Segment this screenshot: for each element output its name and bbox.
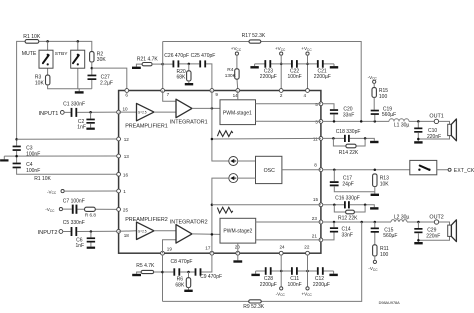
svg-text:PREAMPLIFIER1: PREAMPLIFIER1: [125, 123, 168, 129]
pin 19: [161, 251, 165, 255]
svg-text:INPUT2: INPUT2: [38, 230, 58, 236]
svg-text:6: 6: [125, 92, 128, 97]
wire I1 to OSC: [238, 160, 256, 162]
svg-text:100nF: 100nF: [288, 282, 302, 288]
ground C3/C4 midpoint: [3, 156, 5, 159]
svg-text:1nF: 1nF: [76, 243, 85, 249]
svg-text:10: 10: [123, 106, 129, 111]
IC U1 TDA7490 outline: [119, 91, 321, 254]
current source I2: [229, 174, 238, 183]
ground cap row bottom left: [251, 274, 259, 276]
ground C10: [414, 141, 422, 143]
pin 14: [236, 89, 240, 93]
svg-text:R1 10K: R1 10K: [23, 34, 41, 40]
svg-text:R13: R13: [380, 176, 389, 182]
node EXT_CK: [448, 168, 451, 171]
pin 12: [117, 137, 121, 141]
box PWM-stage2: [220, 218, 256, 243]
wire supply cap row top: [255, 64, 334, 66]
resistor R6 68K: [188, 272, 190, 278]
wire pin19 to integrator2: [163, 240, 177, 253]
resistor internal feedback1 zigzag: [217, 131, 232, 137]
svg-text:100nF: 100nF: [26, 168, 40, 174]
resistor R3: [46, 75, 50, 85]
svg-text:2.2µF: 2.2µF: [100, 80, 113, 86]
svg-text:C8 470pF: C8 470pF: [171, 259, 193, 265]
wire C29 bottom / speaker return: [418, 233, 449, 242]
svg-text:19: 19: [167, 246, 173, 251]
pin 1: [117, 189, 121, 193]
svg-text:R9 52.3K: R9 52.3K: [243, 304, 265, 310]
pin 9: [210, 89, 214, 93]
svg-text:15: 15: [313, 197, 319, 202]
svg-text:560µF: 560µF: [383, 233, 397, 239]
ground C17/R13: [371, 194, 379, 196]
node C14 top junction: [333, 221, 336, 224]
speaker LS2: [448, 225, 452, 236]
svg-text:3: 3: [315, 119, 318, 124]
node C29 junction: [417, 221, 420, 224]
wire to pin 6: [92, 68, 127, 90]
wire R9 feedback rail: [163, 222, 362, 301]
resistor R1: [25, 40, 39, 44]
wire INPUT1: [64, 111, 118, 113]
wire C14 to pin21: [323, 233, 334, 240]
svg-text:R5 4.7K: R5 4.7K: [136, 263, 155, 269]
inductor L1 30u: [389, 119, 409, 122]
capacitor C25: [199, 60, 201, 67]
wire pin15 row: [323, 205, 375, 207]
switch SW1 MUTE: [39, 50, 53, 68]
resistor R11 100: [373, 245, 377, 256]
capacitor C12: [317, 267, 319, 275]
svg-text:C17: C17: [343, 176, 352, 182]
svg-text:-VCC: -VCC: [368, 266, 378, 272]
wire pin15 internal: [212, 204, 321, 206]
pin 23: [319, 220, 323, 224]
wire I2 left vertical chain to pin17: [212, 178, 229, 253]
capacitor C1: [71, 108, 73, 117]
node C15 junction: [374, 221, 377, 224]
node pin19 feedback junction: [161, 271, 164, 274]
svg-text:1nF: 1nF: [77, 125, 86, 131]
capacitor C8: [173, 268, 175, 275]
node R9 junction: [360, 221, 363, 224]
pin 4: [306, 89, 310, 93]
op-amp INTEGRATOR2: [176, 225, 192, 244]
resistor R12 22K loop: [334, 205, 365, 212]
svg-text:INTEGRATOR1: INTEGRATOR1: [170, 120, 208, 126]
ground cap row left: [250, 66, 258, 68]
wire pin18 to preamp2: [119, 230, 137, 233]
ground cap row right: [330, 66, 338, 68]
wire pin7 vertical: [162, 42, 164, 91]
wire STBY stub: [77, 41, 79, 88]
capacitor C16 330pF: [344, 201, 346, 208]
svg-text:C7 100nF: C7 100nF: [63, 198, 85, 204]
ground mute network: [75, 91, 84, 93]
wire pin11 row: [323, 138, 375, 140]
capacitor C6: [90, 232, 92, 238]
svg-text:25: 25: [123, 207, 129, 212]
pin 25: [117, 208, 121, 212]
capacitor C10: [417, 121, 419, 127]
pin 15: [319, 203, 323, 207]
svg-text:G=2.5: G=2.5: [138, 111, 147, 115]
svg-text:+VCC: +VCC: [302, 291, 313, 297]
svg-text:MUTE: MUTE: [22, 51, 37, 57]
wire C20 to out1 line: [333, 114, 335, 121]
ground R5: [137, 272, 142, 274]
svg-text:23: 23: [312, 216, 318, 221]
svg-text:100nF: 100nF: [26, 152, 40, 158]
svg-text:PWM-stage1: PWM-stage1: [223, 110, 252, 116]
capacitor C5: [71, 227, 73, 236]
inductor L2 30u: [391, 220, 407, 222]
wire +Vcc to pin 4: [307, 55, 309, 90]
ground C2: [90, 124, 92, 128]
svg-text:-VCC: -VCC: [368, 75, 378, 81]
node -Vcc R11: [374, 256, 376, 260]
capacitor C3: [13, 146, 21, 148]
node C16 left junction: [333, 204, 336, 207]
svg-text:C5 330nF: C5 330nF: [63, 220, 85, 226]
node integrator2 out junction: [211, 233, 214, 236]
svg-text:R17 52.3K: R17 52.3K: [242, 33, 266, 39]
svg-text:G=2.5: G=2.5: [138, 229, 147, 233]
capacitor C29: [417, 222, 419, 228]
pin 10: [117, 110, 121, 114]
svg-text:C9 470pF: C9 470pF: [200, 274, 222, 280]
pin 20: [236, 251, 240, 255]
wire MUTE stub: [47, 41, 49, 75]
wire supply cap row bottom: [256, 271, 334, 274]
wire INPUT2: [63, 230, 119, 232]
ground R20: [188, 81, 190, 83]
svg-text:C26 470pF: C26 470pF: [164, 53, 189, 59]
pin 21: [319, 238, 323, 242]
capacitor C21: [317, 60, 319, 68]
wire pin10 to preamp1: [119, 111, 137, 113]
wire C26-C25 row: [163, 64, 212, 91]
svg-text:R6: R6: [177, 276, 184, 282]
resistor R21 4.7K: [142, 63, 152, 66]
wire R2/C27 node: [91, 62, 93, 75]
capacitor C23: [264, 60, 266, 68]
capacitor C18 330pF: [344, 135, 346, 142]
node internal junction pin11: [211, 138, 214, 141]
svg-text:+VCC: +VCC: [301, 46, 312, 52]
resistor R9 52.3K: [249, 300, 262, 303]
node R20 junction: [188, 63, 191, 66]
node R17 junction: [360, 120, 363, 123]
wire PWM2 out pin21: [256, 239, 321, 241]
wire C17/R13 common to ground: [334, 186, 375, 193]
svg-text:PREAMPLIFIER2: PREAMPLIFIER2: [125, 217, 168, 223]
wire PWM1 out pin5: [256, 103, 321, 105]
svg-text:100nF: 100nF: [288, 74, 302, 80]
wire integrator1 out to PWM1: [192, 107, 220, 109]
ground R6: [188, 288, 190, 290]
pin 6: [125, 89, 129, 93]
wire integrator2 out to PWM2: [192, 233, 220, 236]
pin 16: [117, 172, 121, 176]
svg-text:17: 17: [205, 246, 211, 251]
svg-text:9: 9: [215, 92, 218, 97]
wire C8-C9 row: [163, 255, 212, 272]
capacitor C11: [291, 267, 293, 275]
wire R1 top line: [17, 41, 92, 139]
wire pin 1: [64, 190, 118, 192]
capacitor C17 24pF: [333, 170, 335, 182]
resistor R5 4.7K: [141, 270, 154, 273]
pin 7: [161, 89, 165, 93]
svg-text:C25 470pF: C25 470pF: [191, 53, 216, 59]
capacitor C2: [90, 112, 92, 118]
ground pin11 RC: [370, 141, 378, 143]
wire PWM2 out pin23: [256, 221, 321, 223]
op-amp PREAMPLIFIER2: [137, 222, 155, 239]
wire PWM2 to pin20: [237, 243, 239, 253]
capacitor C15: [374, 222, 376, 245]
svg-text:R21 4.7K: R21 4.7K: [137, 56, 159, 62]
switch SW2 STBY: [71, 50, 85, 68]
svg-text:33nF: 33nF: [342, 232, 353, 238]
wire pin 13: [4, 155, 118, 157]
wire R17 rail: [163, 42, 362, 122]
speaker LS1: [448, 124, 452, 135]
node C16 right junction: [364, 204, 367, 207]
wire PWM1 out pin3: [256, 120, 321, 122]
wire pin24 to -Vcc: [280, 255, 282, 287]
svg-text:5: 5: [315, 102, 318, 107]
op-amp PREAMPLIFIER1: [137, 103, 155, 120]
node C18 right junction: [364, 137, 367, 140]
svg-text:1: 1: [123, 189, 126, 194]
svg-text:560µF: 560µF: [382, 112, 396, 118]
svg-text:R12 22K: R12 22K: [338, 216, 358, 222]
node pin22 junction: [306, 270, 309, 273]
svg-text:R 6.8: R 6.8: [85, 213, 96, 218]
svg-text:4: 4: [304, 93, 307, 98]
pin 8: [319, 168, 323, 172]
svg-text:18: 18: [124, 233, 130, 238]
svg-text:L1 30µ: L1 30µ: [394, 123, 410, 129]
wire pin9 vertical chain: [212, 91, 229, 162]
resistor R17 52.3K: [249, 40, 261, 43]
svg-text:-VCC: -VCC: [276, 291, 286, 297]
svg-text:C16 330pF: C16 330pF: [335, 195, 360, 201]
svg-text:L2 30µ: L2 30µ: [394, 214, 410, 220]
svg-text:INTEGRATOR2: INTEGRATOR2: [170, 219, 208, 225]
node internal junction pin15: [211, 204, 214, 207]
wire R5 to pin19 node: [154, 271, 163, 273]
node C18 left junction: [332, 137, 335, 140]
wire OUT1 line pin3: [323, 121, 450, 124]
pin 2: [279, 89, 283, 93]
svg-text:C3: C3: [26, 145, 33, 151]
node -Vcc pin24: [280, 287, 283, 290]
svg-text:2200µF: 2200µF: [260, 74, 277, 80]
wire OUT2 line pin23: [323, 222, 450, 225]
wire preamp2 out: [154, 230, 176, 232]
resistor internal feedback2 zigzag: [217, 207, 232, 213]
wire +Vcc to pin 2: [280, 55, 282, 90]
svg-text:30K: 30K: [97, 57, 107, 63]
pin 22: [306, 251, 310, 255]
node junction R1/STBY: [77, 40, 80, 43]
pin 13: [117, 154, 121, 158]
wire switch to EXT_CK: [437, 169, 448, 171]
wire preamp1 out: [154, 111, 176, 113]
svg-text:130K: 130K: [225, 73, 237, 78]
capacitor C22: [291, 60, 293, 68]
wire C7 row: [63, 208, 119, 210]
capacitor C28: [265, 267, 267, 275]
svg-text:C18 330pF: C18 330pF: [336, 129, 361, 135]
svg-text:24: 24: [280, 245, 286, 250]
node +Vcc pin22: [306, 287, 309, 290]
svg-text:+VCC: +VCC: [275, 46, 286, 52]
wire pin 12: [17, 138, 119, 140]
svg-text:100: 100: [379, 94, 388, 100]
node pin24 junction: [280, 270, 283, 273]
wire OSC to pin8: [282, 169, 321, 171]
svg-text:10K: 10K: [380, 182, 390, 188]
pin 3: [319, 120, 323, 124]
svg-text:2200µF: 2200µF: [260, 282, 277, 288]
pin 17: [210, 251, 214, 255]
wire pin19 vertical: [162, 255, 164, 301]
svg-text:220nF: 220nF: [426, 233, 440, 239]
node integrator1 out junction: [211, 107, 214, 110]
svg-text:C1 330nF: C1 330nF: [63, 101, 85, 107]
pin 5: [319, 102, 323, 106]
capacitor C27: [88, 75, 97, 77]
capacitor C26: [173, 60, 175, 67]
node C5/C6 junction: [90, 230, 93, 233]
svg-text:-VCC: -VCC: [45, 207, 55, 213]
switch SW3 external clock: [410, 160, 437, 174]
capacitor C14: [333, 222, 335, 227]
resistor R13 10K: [373, 174, 377, 187]
resistor R8 6.8: [85, 207, 96, 211]
svg-text:R14 22K: R14 22K: [339, 150, 359, 156]
ground pin15 RC: [370, 207, 378, 209]
svg-text:13: 13: [124, 154, 130, 159]
svg-text:OUT1: OUT1: [429, 114, 443, 120]
node R6 junction: [187, 271, 190, 274]
wire pin5 to C20: [323, 104, 334, 109]
node R13 top junction: [374, 168, 377, 171]
ground cap row bottom right: [329, 274, 337, 276]
svg-text:STBY: STBY: [55, 51, 69, 57]
wire pin14 to PWM1: [237, 91, 239, 100]
node pin12 junction: [15, 138, 18, 141]
svg-text:PWM-stage2: PWM-stage2: [223, 229, 252, 235]
svg-text:-VCC: -VCC: [47, 189, 57, 195]
node C10 junction: [417, 120, 420, 123]
capacitor C19: [373, 97, 376, 121]
wire pin11 internal: [212, 137, 321, 140]
wire I2 to OSC: [238, 177, 256, 179]
wire left rail to C3: [17, 139, 119, 174]
node C19 junction: [374, 120, 377, 123]
svg-text:EXT_CK: EXT_CK: [454, 168, 474, 174]
svg-text:INPUT1: INPUT1: [39, 111, 59, 117]
wire pin8 row: [323, 169, 410, 171]
wire C10 bottom / speaker return: [418, 133, 449, 142]
pin 24: [279, 251, 283, 255]
svg-text:68K: 68K: [177, 75, 187, 81]
svg-text:21: 21: [312, 233, 318, 238]
capacitor C4: [13, 163, 21, 165]
svg-text:100: 100: [380, 252, 389, 258]
capacitor C7: [72, 205, 74, 214]
ground C6: [90, 243, 92, 247]
svg-text:12: 12: [124, 137, 130, 142]
svg-text:+VCC: +VCC: [231, 46, 242, 52]
wire bottom rail mute network: [48, 85, 92, 91]
pin 11: [319, 137, 323, 141]
resistor R14 22K loop: [333, 138, 365, 146]
svg-text:16: 16: [123, 172, 129, 177]
svg-text:D98AU978A: D98AU978A: [379, 301, 401, 305]
capacitor C9: [195, 268, 197, 275]
op-amp INTEGRATOR1: [176, 99, 192, 118]
resistor R4 130K: [236, 55, 239, 90]
node pin7 feedback junction: [161, 63, 164, 66]
wire R21 to pin7 node: [152, 63, 163, 65]
node C17 top junction: [333, 168, 336, 171]
resistor R15 100: [373, 83, 375, 87]
node C20 junction: [333, 120, 336, 123]
svg-text:7: 7: [167, 92, 170, 97]
svg-text:33nF: 33nF: [343, 112, 354, 118]
resistor R2: [90, 52, 94, 62]
svg-text:22: 22: [304, 245, 310, 250]
ground R21: [136, 64, 142, 67]
ground pin20: [237, 255, 239, 260]
svg-text:2: 2: [280, 93, 283, 98]
node C1/C2 junction: [89, 111, 92, 114]
svg-text:24pF: 24pF: [342, 182, 353, 188]
svg-text:68K: 68K: [175, 283, 185, 289]
resistor R20: [188, 64, 190, 71]
current source I1: [229, 157, 238, 166]
node junction R1/MUTE: [46, 40, 49, 43]
svg-text:10K: 10K: [35, 80, 45, 86]
ground C29: [414, 242, 422, 244]
wire pin7 to integrator1: [163, 91, 176, 102]
svg-text:2200µF: 2200µF: [313, 282, 330, 288]
svg-text:2200µF: 2200µF: [314, 74, 331, 80]
svg-text:R1 10K: R1 10K: [34, 176, 51, 182]
svg-text:8: 8: [314, 163, 317, 168]
svg-text:OSC: OSC: [264, 168, 275, 174]
wire pin22 to +Vcc: [307, 255, 309, 287]
box PWM-stage1: [220, 100, 256, 125]
pin 18: [117, 229, 121, 233]
capacitor C20: [330, 109, 338, 111]
box OSC: [256, 156, 282, 183]
